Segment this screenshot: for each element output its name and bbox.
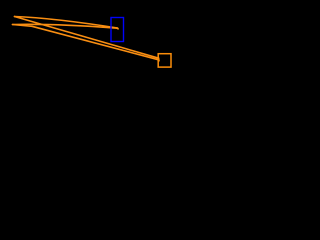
node: blue rectangle xyxy=(111,18,124,42)
end tick at blue box xyxy=(117,28,119,29)
wire A: upper-left tip to blue box xyxy=(15,17,118,29)
wire B: upper-left tip to orange box xyxy=(15,17,159,59)
node: orange square xyxy=(158,54,171,67)
wire C: lower-left tip to blue box xyxy=(13,24,118,28)
end tick at orange box xyxy=(157,58,160,61)
wire D: lower-left tip to orange box xyxy=(13,25,159,60)
